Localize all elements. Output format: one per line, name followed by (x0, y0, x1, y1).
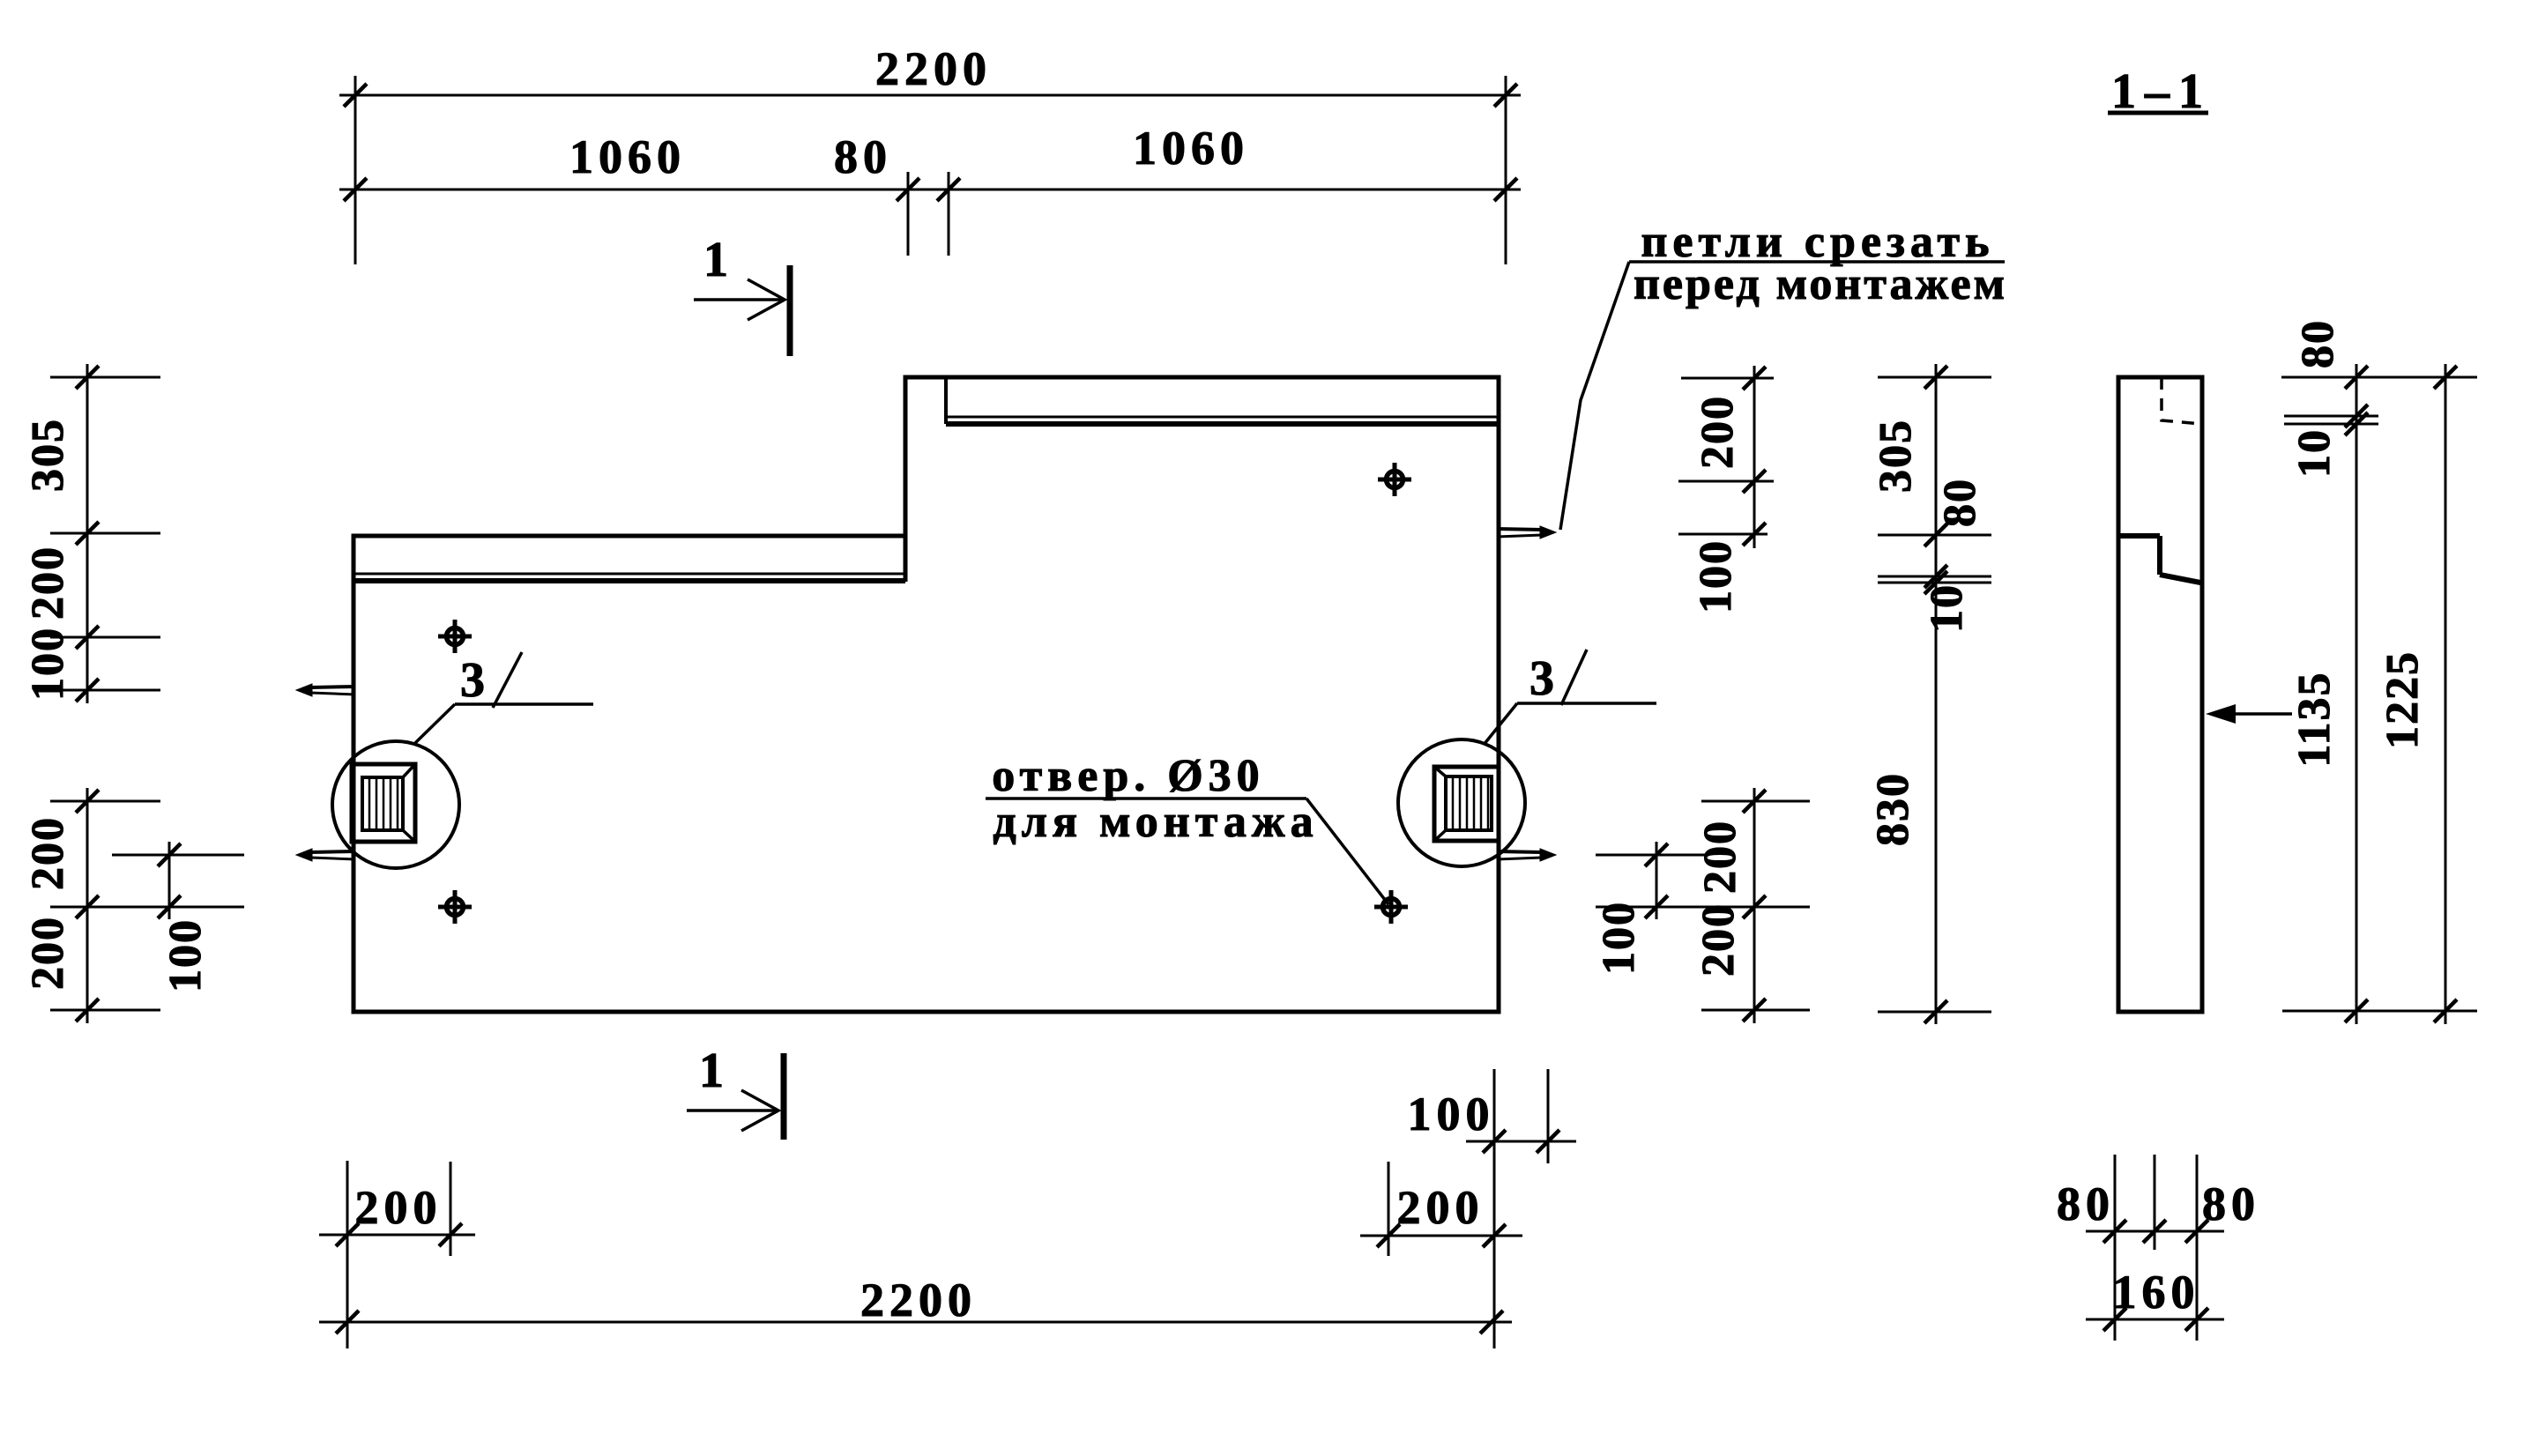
svg-text:80: 80 (1935, 478, 1985, 527)
svg-text:80: 80 (2057, 1177, 2115, 1230)
bottom right dimension 200 (1388, 1162, 1390, 1256)
svg-text:100: 100 (1408, 1088, 1495, 1140)
svg-text:200: 200 (1695, 820, 1745, 894)
dimension 1060-80-1060 (top) (907, 172, 910, 256)
svg-text:200: 200 (23, 916, 73, 990)
section outline (2118, 377, 2202, 1012)
svg-text:80: 80 (2293, 319, 2343, 368)
svg-text:3: 3 (460, 653, 490, 708)
section mark 1 (bottom) (781, 1053, 787, 1140)
svg-text:100: 100 (23, 627, 73, 701)
leader and label 3 (left detail) (415, 704, 455, 743)
svg-text:200: 200 (1397, 1181, 1485, 1234)
left section rebate thin line (354, 573, 905, 576)
section step (quarter rebate profile) (2118, 533, 2160, 539)
right chain2 vertical (1935, 364, 1938, 1024)
svg-text:100: 100 (1594, 901, 1644, 975)
lifting loop pin, right lower (1497, 851, 1542, 852)
left chain vertical lower (86, 788, 89, 1023)
svg-text:1225: 1225 (2378, 650, 2428, 749)
left inner chain 100 (168, 842, 171, 919)
bottom right dimension 100 (1547, 1069, 1550, 1163)
svg-text:200: 200 (1693, 395, 1743, 469)
svg-text:200: 200 (23, 816, 73, 890)
section bottom dimension 80+80 (2086, 1230, 2224, 1233)
leader and label 3 (right detail) (1484, 703, 1517, 745)
svg-text:10: 10 (1922, 583, 1972, 633)
detail circle left (332, 741, 459, 868)
svg-text:1060: 1060 (569, 130, 686, 183)
svg-text:для монтажа: для монтажа (993, 797, 1318, 847)
section mark 1 (top) (787, 265, 793, 356)
left chain extension lines (50, 376, 160, 379)
section hidden rebate (dashed) (2162, 377, 2201, 424)
cross marker, left lower (447, 899, 464, 916)
svg-text:305: 305 (23, 418, 73, 492)
svg-text:830: 830 (1868, 772, 1918, 846)
section chain B (1225) (2445, 364, 2447, 1024)
svg-text:200: 200 (23, 546, 73, 620)
svg-text:200: 200 (1693, 903, 1744, 977)
svg-text:1: 1 (699, 1044, 729, 1098)
lifting loop pin, right upper (1497, 529, 1542, 530)
svg-text:перед монтажем: перед монтажем (1634, 259, 2007, 309)
section right extension lines (2281, 376, 2477, 379)
right chain1 vertical upper (1753, 366, 1756, 548)
hatched square right (montage hole) (1434, 767, 1499, 841)
dimension 2200 (top) (354, 76, 357, 264)
detail circle right (1398, 739, 1525, 866)
right chain1 extension lines (1681, 377, 1774, 380)
cross marker, left upper (447, 628, 464, 645)
hatched square left (montage hole) (352, 764, 415, 842)
step vertical extension at x=1027 (904, 536, 908, 582)
right inner chain 100 (1656, 842, 1658, 919)
right section rebate thick line (946, 421, 1499, 427)
svg-text:200: 200 (355, 1181, 443, 1234)
bottom left dimension 200 (346, 1161, 349, 1348)
section 1135 pointer arrow (2214, 712, 2292, 716)
svg-text:отвер. Ø30: отвер. Ø30 (992, 751, 1264, 801)
left section rebate thick line (10mm edge) (354, 578, 905, 583)
svg-text:160: 160 (2113, 1266, 2200, 1319)
dimension 2200 (bottom) (319, 1321, 1512, 1324)
lifting loop pin, left lower (310, 851, 355, 852)
cross marker, right upper (1387, 472, 1403, 488)
panel outline (front view, stepped precast slab) (354, 377, 1499, 1012)
right section rebate thin line (946, 416, 1499, 419)
svg-text:100: 100 (1691, 539, 1741, 613)
svg-text:3: 3 (1529, 651, 1559, 706)
svg-text:80: 80 (834, 130, 892, 183)
svg-text:1: 1 (703, 233, 733, 287)
right chain1 vertical lower (1753, 788, 1756, 1023)
left chain vertical upper (86, 364, 89, 703)
lifting loop pin, left upper (310, 687, 355, 687)
svg-text:2200: 2200 (875, 42, 992, 95)
svg-text:305: 305 (1871, 419, 1921, 493)
section chain A (80/10/1135) (2356, 364, 2358, 1024)
section bottom dimension 160 (2086, 1319, 2224, 1321)
svg-text:80: 80 (2202, 1177, 2260, 1230)
svg-text:10: 10 (2289, 428, 2340, 478)
svg-text:2200: 2200 (860, 1274, 977, 1326)
svg-text:1135: 1135 (2289, 671, 2340, 767)
svg-text:100: 100 (160, 918, 211, 992)
right section rebate connector (944, 379, 948, 424)
svg-text:1060: 1060 (1133, 122, 1249, 175)
section bottom extension lines (2114, 1155, 2117, 1341)
cross marker, right lower (1383, 899, 1400, 916)
right chain2 extension lines (1878, 376, 1991, 379)
